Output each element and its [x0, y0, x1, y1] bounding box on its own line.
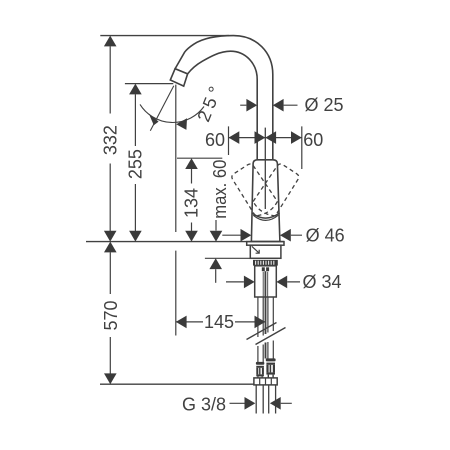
shaft O34: [255, 266, 277, 297]
dim 60/60 ext lines: [229, 126, 302, 169]
dim O25: [240, 104, 297, 106]
shaft center line: [264, 271, 266, 297]
G3/8 tubes: [256, 385, 275, 414]
svg-text:134: 134: [182, 188, 202, 218]
angle arrowhead right: [176, 118, 187, 130]
svg-text:60: 60: [303, 130, 323, 150]
max60 lower line: [205, 257, 250, 259]
bottom reference line: [100, 383, 254, 385]
svg-text:Ø 34: Ø 34: [303, 272, 342, 292]
faucet body: [251, 160, 280, 242]
dim 60/60 line: [229, 137, 302, 139]
hose fitting right: [266, 358, 276, 377]
dim 134 line: [191, 169, 193, 231]
hoses upper: [258, 297, 273, 337]
dim 255 ext line: [125, 83, 173, 85]
dashed tilted handle right: [251, 162, 301, 219]
outlet axis line 25deg: [150, 86, 174, 131]
svg-text:Ø 25: Ø 25: [305, 95, 344, 115]
dim 134 ext line: [177, 157, 222, 159]
angle arrowhead left: [149, 113, 159, 125]
svg-text:145: 145: [204, 312, 234, 332]
clip detail: [262, 267, 265, 271]
dim 145 line: [176, 321, 265, 323]
svg-text:Ø 46: Ø 46: [306, 226, 345, 246]
dim max60 leader: [215, 220, 217, 231]
dim G3/8: [230, 402, 292, 404]
svg-text:332: 332: [101, 125, 121, 155]
base plate: [247, 242, 284, 246]
shaft inner lines: [263, 272, 268, 297]
hose break marks: [247, 323, 286, 345]
hoses lower: [258, 341, 273, 363]
handle pin / center line: [264, 128, 266, 209]
hose fitting left: [256, 362, 264, 378]
mounting box below deck: [250, 245, 281, 258]
body joint smile arc 1: [252, 213, 280, 218]
deck line: [86, 241, 284, 243]
threaded collar: [253, 260, 278, 266]
svg-text:570: 570: [101, 300, 121, 330]
svg-text:255: 255: [125, 149, 145, 179]
dashed tilted handle left: [230, 162, 301, 219]
dim 332 line: [109, 46, 111, 231]
dim 145 ext line: [175, 85, 177, 336]
top reference line: [100, 35, 229, 37]
dim O34: [226, 281, 300, 283]
max60 lower up arrow: [215, 269, 217, 283]
body joint smile arc 2: [253, 215, 278, 220]
mounting flag mark: [252, 246, 259, 253]
svg-text:60: 60: [205, 130, 225, 150]
hex nut block: [254, 378, 277, 385]
dim 255 line: [134, 94, 136, 231]
dim 570 line: [109, 252, 111, 373]
svg-text:G 3/8: G 3/8: [182, 394, 226, 414]
aerator cap: [170, 69, 187, 86]
faucet spout tube: [175, 36, 273, 160]
dim O46: [222, 234, 302, 236]
svg-text:max. 60: max. 60: [210, 160, 230, 219]
angle arc 25deg: [140, 104, 204, 122]
